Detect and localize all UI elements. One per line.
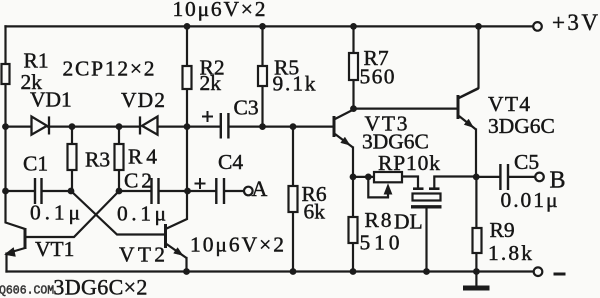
svg-text:10μ6V×2: 10μ6V×2 (190, 233, 284, 257)
piezo sounder DL right electrode plate (429, 187, 440, 190)
transistor VT3 (334, 110, 354, 148)
wire: C1 row left (6, 190, 35, 192)
wire: R4 column (118, 127, 120, 191)
node VT2 emitter bottom (183, 268, 190, 275)
node VT4 collector top (475, 23, 482, 30)
svg-text:C2: C2 (124, 169, 152, 193)
svg-text:R8: R8 (365, 208, 392, 232)
wire: VT3 emitter column (352, 148, 354, 177)
wire: VT3 collector node row to VT4 base (354, 107, 458, 109)
wire: diode row segment R1-VD1 (6, 125, 31, 127)
piezo sounder DL body (413, 194, 441, 201)
svg-text:VT4: VT4 (488, 92, 530, 116)
node R9 bottom / ground (473, 268, 480, 275)
terminal +3V (533, 22, 542, 31)
svg-text:R1: R1 (24, 49, 49, 73)
wire: C3 to VT3 base (230, 125, 334, 127)
capacitor C4 (216, 178, 224, 204)
diode VD2 (140, 116, 158, 134)
svg-text:3DG6C×2: 3DG6C×2 (53, 275, 147, 298)
node RP wiper tie (365, 174, 372, 181)
wire: cross-couple node R4 to VT1 base (26, 191, 119, 237)
transistor VT2 (166, 224, 187, 258)
wire: VT4 collector column (460, 26, 479, 97)
wire: cross-couple node R3 to VT2 base (71, 191, 165, 235)
wire: VT4 emitter column (475, 130, 477, 177)
wire: C5 to terminal B (509, 176, 535, 178)
minus sign (554, 273, 566, 276)
wire: R9 column (475, 177, 477, 272)
svg-text:0.1μ: 0.1μ (117, 202, 166, 226)
terminal minus (534, 267, 543, 276)
wire: RP wiper tie (368, 177, 388, 198)
capacitor C4 polarity plus (195, 178, 206, 189)
svg-text:2k: 2k (200, 71, 222, 95)
wire: R3 column (71, 127, 73, 191)
node VT4 emitter / R9 top (473, 174, 480, 181)
wire: R2 column (167, 26, 188, 228)
wire: DL right electrode to emitter node of VT4 (434, 177, 476, 187)
node R2 bottom (184, 123, 191, 130)
svg-text:560: 560 (360, 65, 395, 89)
svg-text:3DG6C: 3DG6C (362, 130, 429, 154)
svg-text:0.01μ: 0.01μ (501, 188, 558, 212)
svg-text:510: 510 (360, 231, 400, 255)
wire: diode row segment VD2-C3 (158, 125, 220, 127)
wire: R7 column (352, 26, 354, 108)
capacitor C3 (221, 113, 229, 139)
node VT3 emitter / R8 top (350, 174, 357, 181)
terminal B (535, 173, 544, 182)
node R2 top (184, 23, 191, 30)
wire: bottom rail (7, 270, 534, 272)
wire: RP right to DL left electrode (402, 177, 418, 187)
svg-text:6k: 6k (304, 200, 326, 224)
svg-text:A: A (252, 176, 268, 201)
wire: ground stub (475, 272, 477, 285)
node R4 top (116, 123, 123, 130)
wire: R5 column (261, 26, 263, 126)
node R7 top (350, 23, 357, 30)
svg-text:R3: R3 (85, 148, 110, 172)
svg-text:9.1k: 9.1k (273, 72, 316, 96)
wire: diode row segment VD1-VD2 (48, 125, 140, 127)
capacitor C3 polarity plus (202, 111, 213, 122)
node R4 bottom / C2 left (116, 188, 123, 195)
wire: C4 to terminal A (225, 190, 244, 192)
node R6 top (290, 123, 297, 130)
svg-text:C5: C5 (514, 150, 539, 174)
svg-text:C4: C4 (218, 150, 243, 174)
node C1 right / R3 bottom (68, 188, 75, 195)
svg-text:VD2: VD2 (121, 88, 165, 112)
wire: +3V top rail (6, 25, 534, 27)
svg-text:+3V: +3V (552, 10, 598, 35)
svg-text:RP10k: RP10k (378, 151, 440, 175)
svg-text:C1: C1 (23, 152, 48, 176)
svg-text:VD1: VD1 (30, 88, 72, 112)
node R5 bottom (259, 123, 266, 130)
wire: node to C4 (188, 190, 216, 192)
transistor VT4 (458, 89, 479, 130)
node R6 bottom (290, 268, 297, 275)
wire: emitter node to RP (353, 176, 374, 178)
wire: VT1 emitter to bottom rail (5, 254, 7, 272)
potentiometer RP body (374, 172, 402, 182)
wire: R6 column (292, 127, 294, 272)
svg-text:3DG6C: 3DG6C (488, 114, 555, 138)
resistor R8 (349, 217, 358, 243)
svg-text:0.1μ: 0.1μ (30, 201, 80, 225)
resistor R2 (183, 66, 192, 89)
wire: node to C5 (476, 176, 499, 178)
wire: left rail (R1/VD1/C1 column) (6, 26, 26, 229)
wire: VT2 emitter to bottom rail (185, 258, 187, 272)
terminal A (244, 187, 253, 196)
capacitor C5 (500, 164, 508, 190)
ground (463, 286, 490, 291)
svg-text:1.8k: 1.8k (488, 241, 532, 265)
wire: C2 segment (119, 190, 150, 192)
wire: C2 right to VT2 collector node (160, 190, 188, 192)
svg-text:10μ6V×2: 10μ6V×2 (173, 0, 266, 21)
node C1 left (2, 188, 9, 195)
svg-text:VT1: VT1 (35, 237, 74, 261)
svg-text:R9: R9 (490, 218, 515, 242)
resistor R4 (115, 144, 124, 170)
piezo sounder DL bottom plate (411, 205, 442, 208)
node R8 bottom (350, 268, 357, 275)
resistor R6 (289, 186, 298, 212)
potentiometer RP wiper arrow (384, 183, 393, 194)
resistor R7 (349, 53, 358, 80)
node R3 top (69, 123, 76, 130)
resistor R3 (68, 144, 77, 170)
resistor R5 (258, 66, 267, 86)
diode VD1 (32, 116, 50, 134)
piezo sounder DL left electrode plate (413, 187, 424, 190)
wire: DL bottom lead (425, 208, 427, 272)
node R5 top (259, 23, 266, 30)
svg-text:2CP12×2: 2CP12×2 (63, 57, 155, 81)
svg-text:VT2: VT2 (119, 243, 165, 267)
resistor R1 (2, 64, 10, 84)
wire: R8 column (352, 177, 354, 272)
node left rail diode row (2, 123, 9, 130)
svg-text:Q606.COM: Q606.COM (0, 285, 54, 298)
resistor R9 (473, 228, 482, 253)
node VT3 collector / R7 bottom (350, 105, 357, 112)
svg-text:R4: R4 (128, 145, 157, 169)
capacitor C1 (35, 178, 42, 204)
node DL bottom (423, 268, 430, 275)
svg-text:C3: C3 (234, 96, 259, 120)
wire: C1 right to R3 node (43, 190, 72, 192)
capacitor C2 (152, 178, 159, 204)
node VT2 collector / C2 right (184, 188, 191, 195)
transistor VT1 (5, 228, 26, 257)
